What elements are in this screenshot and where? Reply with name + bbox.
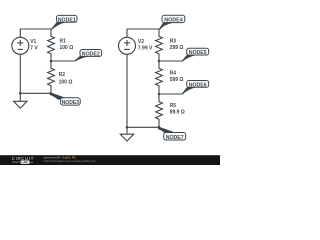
svg-text:599 Ω: 599 Ω xyxy=(170,77,184,83)
svg-text:NODE1: NODE1 xyxy=(58,17,76,23)
svg-text:100 Ω: 100 Ω xyxy=(60,45,74,51)
svg-text:R5: R5 xyxy=(170,103,177,109)
svg-text:NODE2: NODE2 xyxy=(82,51,100,57)
svg-text:R3: R3 xyxy=(170,39,177,45)
svg-text:NODE7: NODE7 xyxy=(166,135,184,141)
svg-text:http://circuitlab.com/c/e3cany: http://circuitlab.com/c/e3cany/lab1-p3/ xyxy=(44,159,96,163)
svg-text:R1: R1 xyxy=(60,39,67,45)
svg-text:NODE5: NODE5 xyxy=(189,50,207,56)
svg-text:R2: R2 xyxy=(59,72,66,78)
svg-text:V1: V1 xyxy=(30,39,36,45)
svg-text:100 Ω: 100 Ω xyxy=(59,79,73,85)
svg-text:89.9 Ω: 89.9 Ω xyxy=(170,109,185,115)
svg-text:NODE3: NODE3 xyxy=(62,100,80,106)
svg-text:R4: R4 xyxy=(170,70,177,76)
svg-text:V2: V2 xyxy=(138,39,144,45)
svg-text:7 V: 7 V xyxy=(30,46,38,52)
svg-text:NODE4: NODE4 xyxy=(164,18,183,24)
svg-text:LAB: LAB xyxy=(22,160,29,164)
svg-text:299 Ω: 299 Ω xyxy=(170,45,184,51)
svg-text:7.99 V: 7.99 V xyxy=(138,46,153,52)
svg-text:NODE6: NODE6 xyxy=(189,82,207,88)
